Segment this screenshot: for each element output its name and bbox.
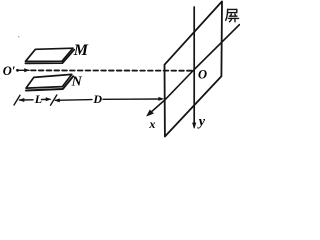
svg-text:N: N (71, 75, 83, 90)
svg-text:M: M (73, 42, 89, 59)
svg-text:y: y (197, 115, 206, 130)
plate M thickness edge (25, 50, 74, 64)
L dimension line right segment (42, 98, 51, 100)
L arrowhead left (19, 98, 25, 102)
electron source dot at O' (16, 69, 19, 72)
L arrowhead right (46, 97, 52, 101)
dashed axis line (31, 69, 194, 71)
D dimension line left segment (56, 99, 93, 102)
svg-text:L: L (34, 92, 42, 106)
L dimension line left segment (20, 99, 34, 101)
svg-text:O′: O′ (3, 64, 16, 78)
plate N thickness edge (26, 76, 73, 90)
plate M top face (25, 48, 73, 61)
svg-text:x: x (148, 117, 155, 131)
scan speckle (18, 36, 19, 37)
y-axis arrowhead (192, 123, 196, 129)
D arrowhead left (54, 98, 60, 102)
svg-text:O: O (198, 67, 207, 81)
L dimension slash left (14, 95, 20, 105)
D arrowhead right (158, 97, 164, 101)
plate N top face (26, 74, 72, 88)
x-axis line (148, 25, 240, 116)
screen outline (165, 1, 223, 136)
beam arrowhead (24, 68, 29, 72)
x-axis arrowhead (146, 110, 154, 117)
label ping (screen) hand-drawn CJK glyph (226, 9, 239, 21)
D dimension line right segment (103, 98, 162, 100)
y-axis line (193, 7, 195, 127)
L dimension slash right (51, 95, 57, 105)
svg-text:D: D (92, 92, 102, 106)
beam line from O' (19, 69, 30, 71)
